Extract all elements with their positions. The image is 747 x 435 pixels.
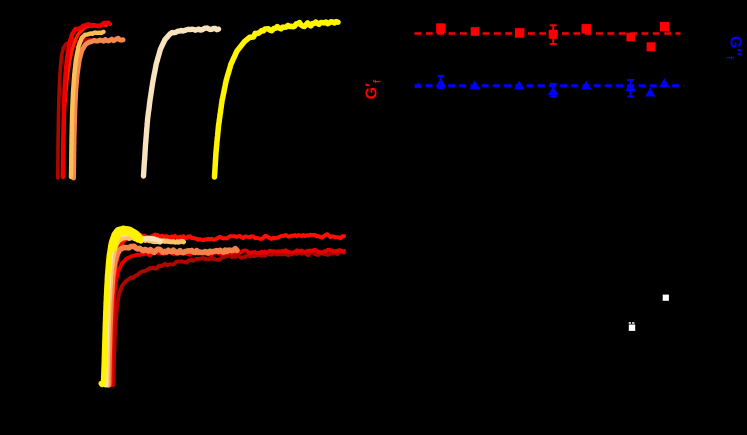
red square 8 bbox=[660, 22, 670, 32]
blue triangle 7 bbox=[645, 88, 656, 97]
curve C2 red lower bbox=[111, 250, 344, 385]
red square 7 bbox=[647, 42, 656, 51]
blue triangle 5 bbox=[581, 81, 592, 90]
curve C5 gold bbox=[107, 238, 184, 385]
red dashed fit line bbox=[415, 32, 681, 35]
curve C7 yellow bbox=[101, 229, 141, 385]
error bar red point 4 bbox=[550, 25, 557, 44]
axis label G''f blue bbox=[723, 30, 742, 66]
blue triangle 8 bbox=[659, 78, 670, 87]
blue dashed fit line bbox=[415, 84, 685, 87]
curve C6 cream bbox=[106, 234, 161, 385]
white square 1 bbox=[663, 295, 669, 301]
red square 6 bbox=[626, 33, 635, 42]
curve C7 yellow peak blob bbox=[113, 230, 139, 247]
red square 2 bbox=[471, 27, 480, 36]
curve A4 gold sigmoid bbox=[71, 32, 104, 177]
red square 4 bbox=[549, 30, 558, 39]
curve C4 orange bbox=[109, 246, 238, 385]
blue triangle 6 bbox=[625, 82, 636, 91]
axis label G'f red bbox=[364, 71, 383, 107]
curve A2 red sigmoid bbox=[63, 23, 110, 177]
red square 1 bbox=[436, 23, 446, 33]
red square 5 bbox=[582, 24, 592, 33]
curve A7 yellow sigmoid bbox=[215, 22, 339, 177]
blue triangle 1 bbox=[436, 78, 447, 87]
blue triangle 0 bbox=[415, 83, 423, 89]
error bar blue point 1 bbox=[437, 76, 444, 88]
blue triangle 3 bbox=[514, 81, 525, 90]
error bar blue point 6 bbox=[627, 80, 634, 97]
curve A6 cream sigmoid bbox=[144, 28, 219, 176]
error bar blue point 4 bbox=[550, 84, 557, 97]
blue triangle 2 bbox=[470, 80, 481, 89]
curve A3 red sigmoid bbox=[64, 25, 107, 177]
blue triangle 4 bbox=[548, 86, 559, 95]
curve A5 orange sigmoid bbox=[74, 38, 124, 178]
error bar cap white square 2 bbox=[629, 322, 631, 324]
curve C1 dark-red bbox=[114, 251, 345, 385]
curve C3 red top bbox=[110, 234, 344, 385]
red square 3 bbox=[515, 28, 525, 38]
curve A1 dark-red sigmoid bbox=[58, 39, 92, 178]
white square 2 bbox=[629, 325, 635, 331]
